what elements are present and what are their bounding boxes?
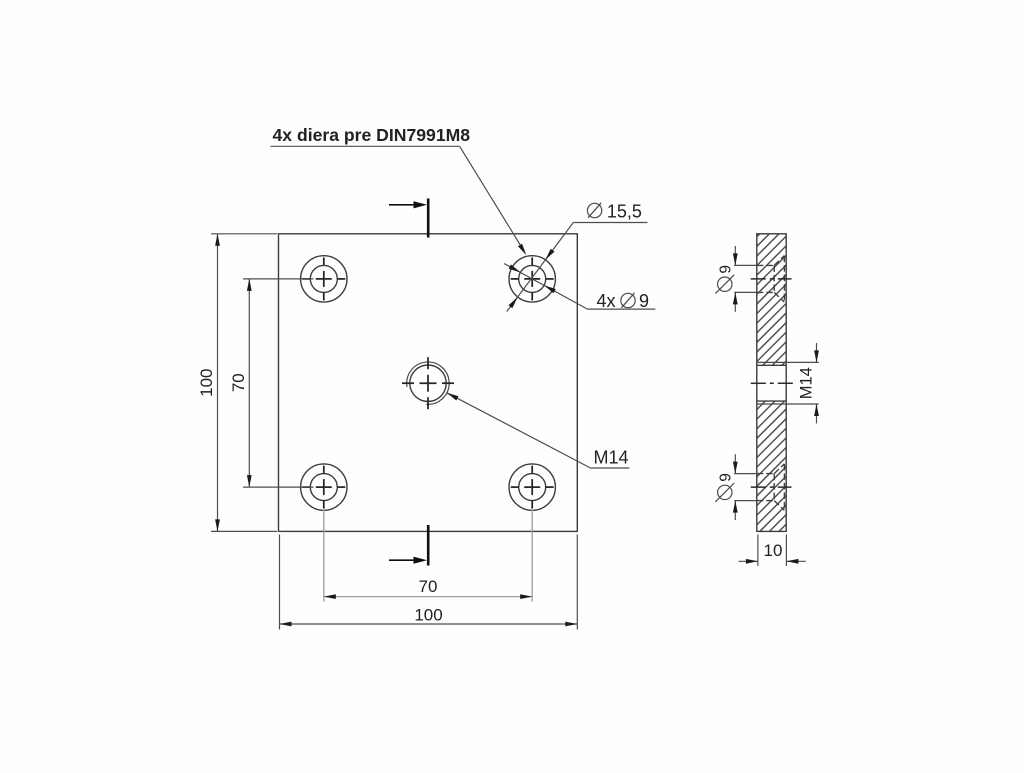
label "4x d9" bbox=[597, 291, 650, 311]
svg-text:4x diera pre DIN7991M8: 4x diera pre DIN7991M8 bbox=[273, 125, 471, 145]
center hole M14 thread arc bbox=[407, 362, 449, 404]
dimension 70 bottom: extension lines (gray) bbox=[324, 510, 532, 602]
dimension 100 left: text bbox=[197, 369, 216, 397]
dimension 70 left: extension lines bbox=[243, 279, 314, 487]
hole top-right counterbore circle d15.5 bbox=[509, 256, 555, 302]
dimension 100 bottom: text bbox=[414, 606, 442, 625]
leader for 4x d9 (diameter line through bore) bbox=[504, 264, 655, 310]
dimension d9 bottom: dimension line with outside arrows bbox=[733, 454, 738, 520]
side view hidden hole bottom: countersink cone dashed bbox=[774, 464, 784, 511]
leader for d15,5 (diameter line through counterbore) bbox=[507, 223, 648, 312]
hole top-right bore circle d9 bbox=[519, 265, 546, 292]
section mark bottom: thick stroke bbox=[427, 525, 430, 566]
leader for M14 bbox=[447, 393, 630, 468]
svg-text:70: 70 bbox=[229, 373, 248, 392]
dimension 10: text bbox=[764, 541, 783, 560]
hole bottom-left center mark bbox=[302, 466, 345, 509]
center hole M14 center mark bbox=[402, 357, 454, 409]
dimension 70 bottom: dimension line with arrows bbox=[324, 594, 532, 599]
section mark top: thick stroke bbox=[427, 199, 430, 238]
label "4x diera pre DIN7991M8" bbox=[273, 125, 471, 145]
dimension 100 bottom: dimension line with arrows bbox=[280, 622, 578, 627]
svg-text:70: 70 bbox=[419, 577, 438, 596]
label "d15,5" bbox=[587, 202, 642, 222]
dimension d9 top: dimension line with outside arrows bbox=[733, 246, 738, 312]
svg-text:100: 100 bbox=[197, 369, 216, 397]
svg-text:15,5: 15,5 bbox=[607, 202, 642, 222]
side view hidden hole bottom: centerline bbox=[751, 486, 792, 488]
center hole M14 bore circle bbox=[410, 365, 446, 401]
label "M14" front view bbox=[594, 448, 629, 468]
side view hatch lines bbox=[459, 231, 1024, 535]
side view hidden hole top: centerline bbox=[751, 278, 792, 280]
svg-text:M14: M14 bbox=[798, 367, 816, 399]
dimension d9 bottom: text bbox=[715, 473, 734, 502]
dimension 10: dimension line with outside arrows bbox=[739, 559, 806, 564]
hole top-left counterbore circle d15.5 bbox=[301, 256, 347, 302]
svg-text:9: 9 bbox=[718, 473, 735, 482]
side view hidden hole bottom: bore dashed lines bbox=[757, 474, 774, 501]
side view hidden hole top: bore dashed lines bbox=[757, 265, 774, 292]
plate outline (front view 100x100) bbox=[279, 234, 578, 532]
dimension 100 bottom: extension lines bbox=[280, 535, 578, 630]
hole top-left bore circle d9 bbox=[310, 265, 337, 292]
dimension 70 left: text bbox=[229, 373, 248, 392]
svg-text:9: 9 bbox=[639, 291, 649, 311]
side view M14 centerline bbox=[751, 382, 794, 384]
dimension 100 left: dimension line with arrows bbox=[215, 234, 220, 532]
dimension d9 bottom: extension lines bbox=[734, 474, 756, 501]
hole bottom-left counterbore circle d15.5 bbox=[301, 464, 347, 510]
svg-text:100: 100 bbox=[414, 606, 442, 625]
hole bottom-left bore circle d9 bbox=[310, 474, 337, 501]
dimension M14 side: dimension line with outside arrows bbox=[814, 343, 819, 423]
dimension d9 top: text bbox=[715, 265, 734, 294]
leader for title label bbox=[271, 146, 527, 255]
side view outline (10mm thick plate) bbox=[757, 234, 786, 532]
dimension d9 top: extension lines bbox=[734, 265, 756, 292]
svg-text:M14: M14 bbox=[594, 448, 629, 468]
dimension 100 left: extension lines bbox=[211, 234, 277, 532]
dimension 70 left: dimension line with arrows bbox=[247, 279, 252, 487]
svg-text:10: 10 bbox=[764, 541, 783, 560]
hole top-left center mark bbox=[302, 257, 345, 300]
hole top-right center mark bbox=[511, 257, 554, 300]
side view M14 bore lines bbox=[757, 365, 786, 401]
dimension M14 side: extension lines bbox=[787, 362, 819, 404]
section mark bottom: view direction arrow bbox=[389, 557, 427, 564]
svg-text:9: 9 bbox=[718, 265, 735, 274]
hole bottom-right center mark bbox=[511, 466, 554, 509]
side view hidden hole top: countersink cone dashed bbox=[774, 256, 784, 303]
dimension 10: extension lines bbox=[758, 535, 787, 567]
hole bottom-right bore circle d9 bbox=[519, 474, 546, 501]
side view M14 thread major lines bbox=[757, 362, 786, 404]
hole bottom-right counterbore circle d15.5 bbox=[509, 464, 555, 510]
svg-text:4x: 4x bbox=[597, 291, 616, 311]
dimension M14 side: text bbox=[798, 367, 816, 399]
section mark top: view direction arrow bbox=[389, 201, 427, 208]
dimension 70 bottom: text bbox=[419, 577, 438, 596]
